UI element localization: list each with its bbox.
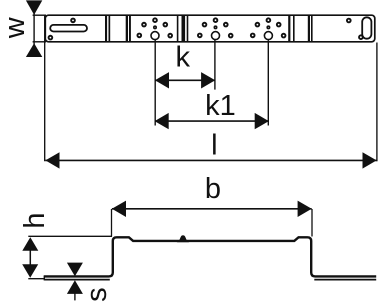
svg-text:k1: k1 [205, 90, 236, 122]
svg-text:l: l [211, 130, 217, 162]
svg-text:s: s [81, 287, 113, 302]
svg-text:h: h [19, 213, 51, 229]
svg-text:b: b [205, 173, 221, 205]
svg-text:w: w [0, 16, 31, 39]
svg-text:k: k [176, 41, 191, 73]
